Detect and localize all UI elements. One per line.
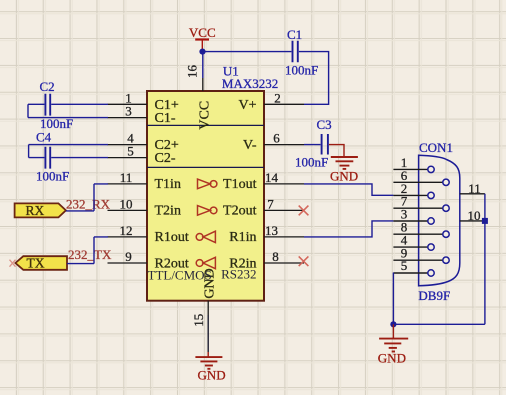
svg-text:100nF: 100nF bbox=[285, 63, 318, 78]
capacitor C4 plates bbox=[45, 147, 50, 169]
wire TX to pin9 bbox=[67, 263, 94, 265]
svg-text:6: 6 bbox=[273, 131, 280, 146]
wire RX node up to pin11 bbox=[94, 184, 108, 211]
wire VCC node to C1 bbox=[203, 51, 292, 53]
svg-text:2: 2 bbox=[274, 90, 281, 105]
svg-text:R1out: R1out bbox=[155, 230, 189, 245]
svg-text:12: 12 bbox=[120, 223, 133, 238]
junction at GND node bbox=[390, 321, 396, 327]
CON1 pin 1 bbox=[393, 155, 434, 173]
no-ERC cross at TX port tip bbox=[10, 260, 16, 267]
capacitor C2 top wire bbox=[28, 103, 108, 105]
svg-text:T2out: T2out bbox=[223, 204, 257, 219]
wire C2 bottom (pin3) bbox=[28, 117, 108, 119]
svg-text:16: 16 bbox=[185, 65, 200, 79]
CON1 pin 9 bbox=[393, 245, 449, 263]
pin 6 V- stub bbox=[264, 144, 304, 146]
ground GND (at C3) bbox=[329, 145, 358, 169]
svg-text:GND: GND bbox=[378, 351, 406, 366]
svg-text:13: 13 bbox=[265, 223, 278, 238]
svg-text:C2-: C2- bbox=[155, 151, 176, 166]
svg-text:3: 3 bbox=[125, 104, 132, 119]
pin 7 T2out stub bbox=[264, 209, 304, 211]
pin 1 C1+ stub bbox=[108, 103, 148, 105]
wire C4 top (pin4) bbox=[29, 144, 108, 146]
T1 buffer symbol bbox=[198, 179, 217, 189]
wire C2 left vertical bbox=[27, 104, 29, 117]
pin 13 R1in stub bbox=[264, 236, 304, 238]
svg-text:RS232: RS232 bbox=[221, 267, 256, 282]
CON1 pin 11 (shield) bbox=[460, 193, 485, 195]
R2 buffer symbol bbox=[196, 257, 215, 268]
svg-text:10: 10 bbox=[468, 208, 481, 223]
pin 12 R1out stub bbox=[108, 236, 148, 238]
svg-text:V-: V- bbox=[243, 138, 257, 153]
CON1 pin 2 bbox=[393, 181, 434, 199]
pin 16 VCC stub (top) bbox=[202, 78, 204, 91]
svg-text:11: 11 bbox=[468, 181, 481, 196]
svg-text:V+: V+ bbox=[238, 98, 256, 113]
junction at VCC node bbox=[199, 49, 205, 55]
wire pin13 R1in to CON1 pin3 bbox=[304, 221, 393, 237]
ground GND (below U1) bbox=[195, 352, 222, 369]
wire bottom horizontal to GND node bbox=[393, 323, 485, 325]
svg-text:C4: C4 bbox=[36, 130, 52, 145]
svg-text:9: 9 bbox=[125, 249, 132, 264]
op-amp U1 MAX3232 component body bbox=[147, 91, 264, 301]
CON1 pin 3 bbox=[393, 207, 434, 225]
port RX bbox=[15, 203, 66, 218]
svg-text:5: 5 bbox=[401, 258, 408, 273]
wire VCC to pin16 bbox=[202, 52, 204, 78]
wire shield down right side bbox=[484, 194, 486, 324]
svg-text:MAX3232: MAX3232 bbox=[222, 76, 278, 91]
pin 9 R2out stub bbox=[108, 262, 148, 264]
pin 11 T1in stub bbox=[108, 183, 148, 185]
svg-text:14: 14 bbox=[265, 170, 279, 185]
svg-text:8: 8 bbox=[272, 249, 279, 264]
power port VCC bbox=[189, 25, 216, 51]
port TX bbox=[15, 256, 67, 271]
svg-text:R1in: R1in bbox=[229, 230, 256, 245]
svg-text:GND: GND bbox=[198, 368, 226, 383]
svg-text:232_TX: 232_TX bbox=[68, 247, 112, 262]
svg-text:CON1: CON1 bbox=[419, 140, 453, 155]
svg-text:5: 5 bbox=[127, 144, 134, 159]
svg-text:T1out: T1out bbox=[223, 177, 257, 192]
capacitor C2 plates bbox=[45, 94, 50, 116]
wire C4 left vertical bbox=[28, 145, 30, 158]
svg-text:GND: GND bbox=[330, 168, 358, 183]
junction square at pin10 node bbox=[482, 218, 488, 224]
T2 buffer symbol bbox=[198, 206, 217, 216]
svg-text:T1in: T1in bbox=[155, 177, 181, 192]
svg-text:VCC: VCC bbox=[189, 25, 216, 40]
svg-text:C1-: C1- bbox=[155, 111, 176, 126]
wire pin15 down to ground bbox=[207, 315, 209, 352]
pin 15 GND stub (bottom) bbox=[207, 301, 209, 315]
svg-text:100nF: 100nF bbox=[295, 155, 328, 170]
capacitor C3 plates bbox=[322, 134, 328, 155]
capacitor C4 bottom wire bbox=[29, 157, 108, 159]
CON1 pin 6 bbox=[393, 168, 449, 186]
CON1 pin 5 bbox=[393, 258, 434, 276]
no-ERC cross at pin7 bbox=[299, 206, 309, 216]
pin 2 V+ stub bbox=[264, 103, 304, 105]
svg-text:10: 10 bbox=[120, 196, 133, 211]
svg-text:DB9F: DB9F bbox=[418, 288, 450, 303]
ground GND (below CON1) bbox=[379, 324, 408, 351]
CON1 pin 4 bbox=[393, 232, 434, 250]
wire RX to pin10 bbox=[66, 210, 94, 212]
pin 3 C1- stub bbox=[108, 117, 148, 119]
wire TX node up to pin12 bbox=[94, 237, 108, 264]
svg-text:7: 7 bbox=[267, 196, 274, 211]
svg-text:TX: TX bbox=[27, 256, 45, 271]
wire CON1 pin5 down to GND node bbox=[392, 273, 394, 325]
svg-text:232_RX: 232_RX bbox=[66, 197, 111, 212]
R1 buffer symbol bbox=[196, 231, 215, 242]
pin 5 C2- stub bbox=[108, 157, 148, 159]
pin 14 T1out stub bbox=[264, 183, 304, 185]
svg-text:100nF: 100nF bbox=[36, 169, 69, 184]
CON1 pin 10 (shield) bbox=[460, 220, 485, 222]
svg-text:C2: C2 bbox=[40, 79, 55, 94]
no-ERC cross at pin8 bbox=[299, 256, 309, 266]
pin 10 T2in stub bbox=[108, 209, 148, 211]
pin 8 R2in stub bbox=[264, 262, 304, 264]
wire pin6 to C3 bbox=[304, 144, 321, 146]
svg-text:C3: C3 bbox=[317, 117, 332, 132]
connector CON1 DB9F shell bbox=[419, 155, 460, 285]
capacitor C1 plates bbox=[293, 41, 298, 63]
svg-text:T2in: T2in bbox=[155, 204, 181, 219]
svg-text:11: 11 bbox=[120, 170, 133, 185]
svg-text:C1: C1 bbox=[287, 27, 302, 42]
pin 4 C2+ stub bbox=[108, 144, 148, 146]
svg-text:RX: RX bbox=[26, 203, 45, 218]
svg-text:TTL/CMOS: TTL/CMOS bbox=[148, 268, 212, 283]
wire C1 right to corner and down to pin2 bbox=[299, 52, 329, 105]
CON1 pin 8 bbox=[393, 220, 449, 238]
CON1 pin 7 bbox=[393, 194, 449, 212]
wire pin14 T1out to CON1 pin2 bbox=[304, 184, 393, 195]
svg-text:15: 15 bbox=[191, 314, 206, 327]
svg-text:VCC: VCC bbox=[198, 101, 213, 130]
